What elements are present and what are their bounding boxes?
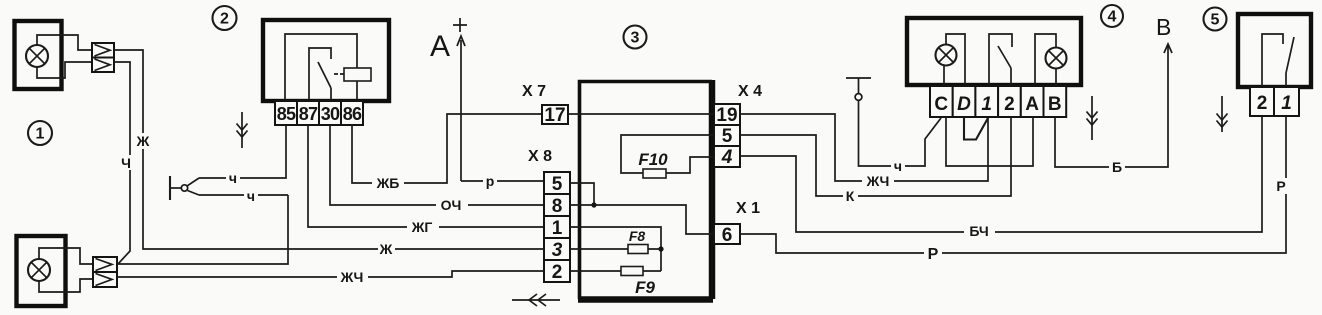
circled 5 [1204, 8, 1227, 31]
svg-text:В: В [1156, 14, 1171, 40]
wire ОЧ (relay 30 to X8 pin 8) [330, 125, 544, 213]
svg-text:ЖЧ: ЖЧ [866, 173, 890, 189]
lamp unit housing (component 1 top) [14, 21, 62, 89]
lamp L3 bulb (left) [936, 45, 957, 66]
connector X8 pin 2 [544, 260, 570, 283]
svg-text:ч: ч [229, 170, 237, 186]
cluster pin D [953, 86, 976, 117]
svg-text:К: К [846, 188, 855, 204]
svg-text:30: 30 [321, 104, 340, 124]
svg-text:A: A [1025, 94, 1039, 115]
lamp L2 bulb [28, 259, 50, 281]
connector X4 pin 19 [714, 104, 740, 126]
svg-text:4: 4 [1108, 9, 1117, 26]
door switch S1 [170, 176, 199, 200]
svg-text:17: 17 [544, 105, 565, 126]
connector X8 pin 1 [544, 216, 570, 239]
wire ч (door switch to relay 85) [199, 125, 286, 186]
svg-text:Х 8: Х 8 [528, 148, 552, 165]
wire К (X4.5 to lamp cluster pin 2) [740, 117, 1011, 204]
connector X8 pin 5 [544, 172, 570, 195]
connector X8 pin 8 [544, 194, 570, 217]
body terminal (screw) [846, 78, 871, 100]
svg-text:ч: ч [894, 158, 902, 174]
svg-text:1: 1 [552, 218, 563, 239]
svg-text:F9: F9 [635, 278, 655, 297]
node A+ supply arrow [430, 18, 467, 181]
svg-text:B: B [1048, 94, 1062, 115]
svg-text:85: 85 [277, 104, 296, 124]
relay coil [285, 34, 371, 101]
wire ЖГ (relay 87 to X8 pin 1) [308, 125, 544, 235]
internal wire X8.1 to fuse node [570, 227, 661, 271]
svg-text:5: 5 [1211, 12, 1220, 29]
svg-text:C: C [934, 94, 948, 115]
svg-text:1: 1 [1281, 93, 1292, 114]
switch housing (component 5) [1238, 14, 1311, 87]
wire ЖБ (relay 86 to X7 pin 17) [352, 114, 542, 191]
svg-text:19: 19 [716, 105, 737, 126]
svg-text:р: р [486, 173, 495, 189]
connector X7 pin 17 [542, 105, 568, 126]
junction (fuse node) [658, 246, 663, 251]
jumper C to A [946, 117, 1033, 166]
cluster pin B [1044, 86, 1067, 117]
wire Р (X1.6 to switch 5 pin 1) [740, 116, 1289, 263]
cluster pin 1 [975, 86, 998, 117]
relay contact [309, 48, 344, 101]
connector X4 pin 4 [714, 146, 740, 168]
relay pin 87 [297, 101, 319, 125]
svg-text:2: 2 [220, 11, 229, 28]
fuse F9 [570, 267, 661, 298]
svg-text:2: 2 [1257, 93, 1268, 114]
svg-text:F8: F8 [629, 228, 646, 244]
node B arrow [1156, 14, 1172, 53]
lamp L1 internal leads [37, 35, 92, 78]
svg-text:5: 5 [552, 174, 563, 195]
svg-text:8: 8 [552, 196, 563, 217]
jumper D to 1 [964, 117, 988, 140]
svg-text:A: A [430, 30, 450, 63]
svg-text:Ж: Ж [379, 241, 393, 257]
svg-text:1: 1 [981, 94, 992, 115]
lamp L3 leads [944, 34, 965, 86]
switch pin 2 [1250, 87, 1274, 116]
ECU box (component 3) [580, 82, 713, 300]
wire Ч (top lamp to bottom lamp connector) [114, 62, 133, 264]
svg-text:Р: Р [1276, 178, 1285, 194]
ground symbol (right of cluster) [1087, 96, 1098, 140]
fuse F8 [570, 228, 661, 254]
svg-text:Ж: Ж [136, 133, 150, 149]
continuation arrow (bottom) [512, 294, 560, 306]
lamp L4 bulb (right) [1046, 48, 1067, 69]
relay K1 housing (component 2) [263, 20, 389, 101]
wire (bottom lamp to door switch) [117, 195, 288, 264]
svg-text:Х 4: Х 4 [738, 83, 762, 100]
svg-text:Р: Р [928, 246, 939, 263]
svg-text:Ч: Ч [121, 155, 131, 171]
ground symbol (below relay) [237, 112, 248, 148]
svg-text:3: 3 [552, 240, 563, 261]
svg-text:Х 7: Х 7 [522, 83, 546, 100]
wire ч (terminal to lamp cluster pin C) [859, 101, 942, 175]
internal wire X8.8 to X1.6 [570, 205, 714, 234]
svg-text:3: 3 [631, 30, 640, 47]
svg-text:6: 6 [722, 225, 733, 246]
switch pin 1 [1274, 87, 1299, 116]
svg-text:5: 5 [722, 126, 733, 147]
svg-text:ЖБ: ЖБ [376, 175, 400, 191]
lamp L1 bulb [26, 45, 48, 67]
connector X8 pin 3 [544, 238, 570, 261]
svg-text:Б: Б [1112, 159, 1122, 175]
svg-text:Х 1: Х 1 [736, 200, 760, 217]
relay pin 30 [319, 101, 341, 125]
svg-text:БЧ: БЧ [969, 223, 988, 239]
circled 3 [624, 26, 647, 49]
circled 4 [1101, 5, 1123, 27]
connector X (top lamp) [92, 43, 114, 72]
lamp unit housing (component 1 bottom) [16, 236, 66, 306]
connector X (bottom lamp) [93, 257, 117, 287]
wire ЖЧ (X4.19 to lamp cluster pin 1) [740, 114, 988, 189]
switch contact (component 5) [1262, 34, 1294, 87]
cluster pin 2 [998, 86, 1021, 117]
svg-text:ЖГ: ЖГ [411, 219, 433, 235]
cluster pin C [930, 86, 953, 117]
ground symbol (left of switch 5) [1217, 96, 1228, 132]
cluster pin A [1021, 86, 1044, 117]
svg-text:2: 2 [1004, 94, 1015, 115]
svg-text:86: 86 [343, 104, 362, 124]
relay pin 85 [275, 101, 297, 125]
wire БЧ (X4.4 to switch 5 pin 2) [740, 116, 1262, 239]
wire ч (door switch to lamps) [199, 188, 288, 204]
circled 2 [213, 6, 237, 30]
svg-text:ОЧ: ОЧ [441, 197, 462, 213]
wire Б (cluster pin B to node B) [1055, 44, 1168, 175]
svg-text:ч: ч [247, 188, 255, 204]
switch contact (middle of cluster) [989, 34, 1012, 86]
internal wire X7.17 to X4.19 [568, 113, 714, 115]
relay pin 86 [341, 101, 363, 125]
connector X4 pin 5 [714, 125, 740, 147]
lamp cluster housing (component 4) [907, 18, 1081, 85]
wire ЖЧ (bottom lamp to X8 pin 2) [117, 269, 544, 285]
lamp L2 internal leads [39, 248, 93, 292]
internal wire X8.5 to X8.8 node [570, 183, 594, 205]
svg-text:87: 87 [299, 104, 318, 124]
svg-text:D: D [957, 94, 971, 115]
circled 1 [28, 121, 52, 145]
wire р (A+ to X8 pin 5) [461, 173, 544, 189]
connector X1 pin 6 [714, 224, 740, 246]
svg-text:4: 4 [721, 147, 733, 168]
wire Ж (top lamp to X8 pin 3) [114, 50, 544, 257]
svg-text:ЖЧ: ЖЧ [340, 269, 364, 285]
svg-text:2: 2 [552, 262, 563, 283]
svg-text:1: 1 [36, 126, 45, 143]
lamp L4 leads [1035, 34, 1056, 86]
junction (X8.5/X8.8 node) [591, 202, 596, 207]
fuse F10 (between X4.5 and X4.4) [621, 135, 714, 178]
svg-text:F10: F10 [638, 150, 668, 169]
